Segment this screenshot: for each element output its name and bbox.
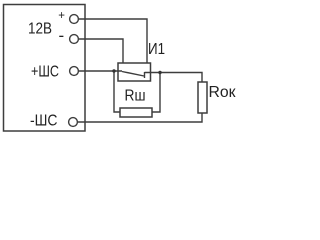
svg-text:-ШС: -ШС xyxy=(30,113,58,130)
svg-text:-: - xyxy=(59,26,65,45)
svg-text:12В: 12В xyxy=(28,21,52,38)
svg-text:+: + xyxy=(58,10,65,22)
svg-text:Rш: Rш xyxy=(125,88,146,105)
svg-text:+ШС: +ШС xyxy=(31,64,59,81)
svg-text:И1: И1 xyxy=(148,41,165,58)
svg-text:Rок: Rок xyxy=(209,84,236,101)
